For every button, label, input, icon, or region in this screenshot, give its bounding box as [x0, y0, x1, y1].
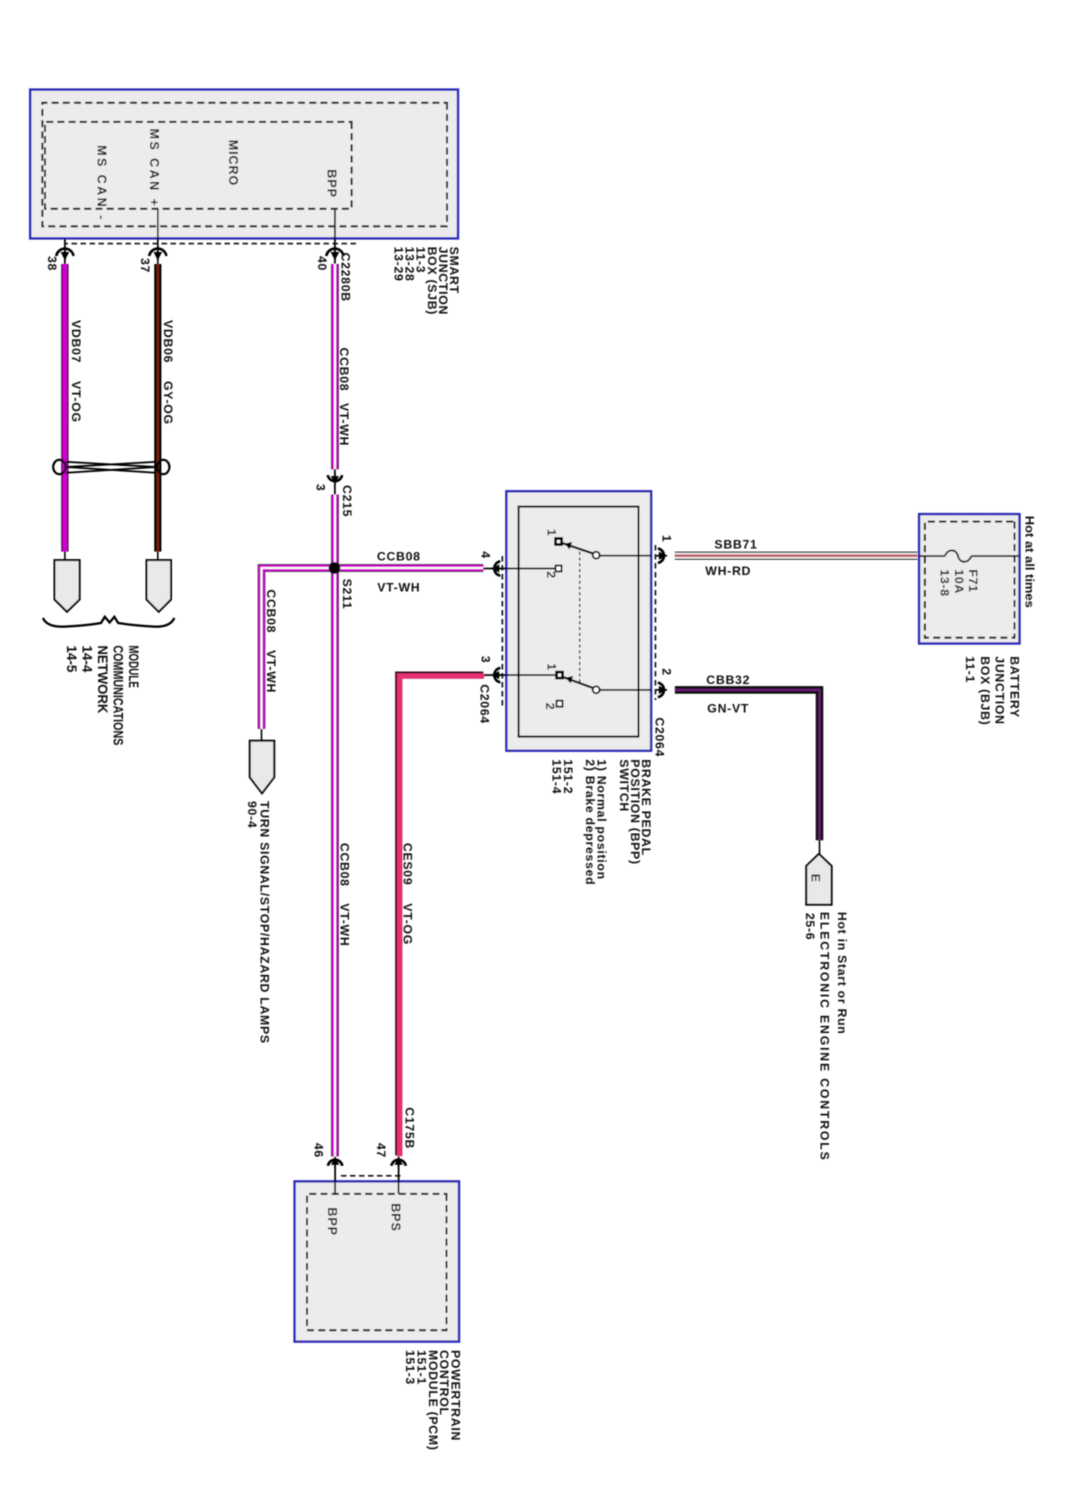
svg-text:COMMUNICATIONS: COMMUNICATIONS: [110, 645, 125, 745]
svg-text:ELECTRONIC ENGINE CONTROLS: ELECTRONIC ENGINE CONTROLS: [818, 912, 832, 1162]
svg-text:VT-WH: VT-WH: [264, 650, 278, 693]
connector arrow pin 38: [56, 246, 73, 260]
svg-text:JUNCTION: JUNCTION: [993, 656, 1007, 724]
connector arrow pin 47: [391, 1157, 405, 1168]
svg-text:CCB08: CCB08: [377, 549, 421, 563]
svg-text:VT-WH: VT-WH: [377, 580, 420, 594]
svg-text:CCB08: CCB08: [264, 589, 278, 633]
svg-text:1: 1: [660, 535, 674, 543]
svg-text:BPP: BPP: [325, 169, 339, 198]
svg-text:GY-OG: GY-OG: [161, 381, 175, 425]
svg-text:Hot in Start or Run: Hot in Start or Run: [835, 912, 849, 1035]
svg-text:90-4: 90-4: [245, 801, 259, 828]
SJB outer dashed boundary: [42, 103, 447, 227]
twisted pair circle (VDB07): [53, 460, 65, 474]
svg-text:SWITCH: SWITCH: [617, 759, 631, 812]
wire VDB07 VT-OG: [61, 264, 68, 552]
svg-text:BATTERY: BATTERY: [1007, 656, 1021, 718]
svg-text:MODULE: MODULE: [126, 645, 141, 688]
svg-text:151-3: 151-3: [403, 1350, 417, 1385]
connector arrow pin 3: [491, 668, 502, 682]
svg-text:47: 47: [374, 1143, 388, 1158]
switch 1 common circle: [593, 552, 600, 559]
svg-text:MS CAN -: MS CAN -: [95, 145, 109, 222]
connector pentagon E: [806, 854, 831, 905]
wire CCB08 VT-WH (S211 to PCM pin 46): [331, 568, 339, 1156]
svg-text:CBB32: CBB32: [706, 673, 750, 687]
svg-text:C215: C215: [340, 485, 354, 517]
svg-text:BPP: BPP: [325, 1207, 339, 1236]
svg-text:25-6: 25-6: [803, 913, 817, 940]
connector arrow pin 2: [656, 683, 667, 697]
svg-text:C175B: C175B: [403, 1107, 417, 1149]
lead to connector (VDB06): [157, 552, 159, 561]
svg-text:11-1: 11-1: [963, 656, 977, 683]
connector C175B dashed line: [341, 1175, 401, 1177]
splice S211: [329, 562, 341, 574]
svg-text:GN-VT: GN-VT: [707, 702, 749, 716]
connector arrow pin 4: [491, 561, 502, 575]
pin 3 lead: [483, 674, 556, 676]
svg-text:40: 40: [315, 256, 329, 271]
fuse F71: [945, 550, 972, 561]
svg-text:VT-OG: VT-OG: [400, 903, 414, 945]
svg-text:38: 38: [45, 256, 59, 271]
wire stub pin 37: [157, 209, 159, 264]
svg-text:MS CAN +: MS CAN +: [147, 129, 161, 209]
switch 1 contact 1 (square): [556, 539, 562, 545]
lead to E connector: [819, 840, 821, 854]
connector arrow pin 37: [149, 246, 166, 260]
wire VDB06 GY-OG: [154, 264, 161, 552]
twisted pair circle (VDB06): [157, 460, 169, 474]
svg-text:10A: 10A: [952, 569, 966, 594]
wire CCB08 VT-WH (C215 to S211): [331, 495, 339, 568]
svg-text:13-29: 13-29: [392, 247, 406, 282]
svg-text:Hot at all times: Hot at all times: [1023, 516, 1037, 608]
connector arrow pin 46: [328, 1157, 342, 1168]
battery junction box BJB: [919, 514, 1019, 643]
svg-text:13-8: 13-8: [938, 569, 952, 596]
wire CES09 VT-OG: [399, 675, 484, 1155]
pin 47 lead: [398, 1162, 400, 1194]
C2064 dashed (top): [654, 545, 656, 700]
BJB dashed boundary: [925, 522, 1015, 638]
svg-text:151-4: 151-4: [550, 759, 564, 794]
switch 2 contact 1 (square, to pin 3): [557, 672, 563, 678]
C2064 dashed (bottom): [501, 556, 503, 706]
SJB MICRO dashed box: [45, 122, 352, 209]
svg-text:2: 2: [660, 668, 674, 676]
svg-text:2: 2: [543, 703, 557, 711]
svg-text:4: 4: [479, 551, 493, 559]
switch 1 contact 2 (square, to pin 4): [556, 566, 562, 572]
connector pentagon (VDB06): [147, 560, 172, 612]
svg-text:NETWORK: NETWORK: [95, 645, 110, 713]
wire stub pin 40 (BPP): [334, 209, 336, 264]
pin 4 lead: [483, 568, 555, 570]
mechanical link dashed: [579, 552, 581, 683]
twisted pair crossover lines: [66, 462, 157, 467]
svg-text:2) Brake depressed: 2) Brake depressed: [583, 759, 597, 885]
brake pedal position switch box: [506, 491, 651, 750]
connector C215 symbol: [334, 469, 336, 494]
pin 1 lead: [600, 555, 652, 557]
brace (module communications network): [43, 617, 174, 627]
svg-text:WH-RD: WH-RD: [705, 564, 751, 578]
svg-text:BPS: BPS: [388, 1203, 402, 1232]
smart junction box SJB: [30, 90, 458, 239]
svg-text:VT-WH: VT-WH: [337, 403, 351, 446]
wire stub pin 38: [64, 239, 66, 265]
svg-text:C2064: C2064: [478, 684, 492, 724]
BPP inner box: [519, 507, 639, 737]
switch 1 blade: [561, 543, 595, 555]
PCM dashed boundary: [307, 1194, 447, 1330]
svg-text:3: 3: [314, 484, 328, 492]
switch 2 blade: [562, 677, 595, 689]
svg-text:C2064: C2064: [652, 717, 666, 757]
svg-text:F71: F71: [966, 569, 980, 592]
connector arrow pin 40: [326, 246, 343, 260]
svg-text:3: 3: [478, 656, 492, 664]
svg-text:37: 37: [138, 258, 152, 273]
connector pentagon (turn signal): [250, 741, 275, 794]
svg-text:VT-OG: VT-OG: [69, 381, 83, 423]
svg-text:1: 1: [544, 663, 558, 671]
svg-text:46: 46: [311, 1143, 325, 1158]
switch 2 contact 2 (square, open): [557, 701, 563, 707]
svg-text:MICRO: MICRO: [226, 140, 240, 186]
svg-text:TURN SIGNAL/STOP/HAZARD LAMPS: TURN SIGNAL/STOP/HAZARD LAMPS: [257, 801, 271, 1044]
pin 46 lead: [334, 1162, 336, 1194]
svg-text:VDB07: VDB07: [69, 320, 83, 363]
wire CCB08 VT-WH (pin 4 to S211): [335, 564, 484, 572]
wire CBB32 GN-VT: [675, 690, 820, 840]
svg-text:1: 1: [545, 529, 559, 537]
connector C2280B dashed line: [64, 243, 356, 245]
svg-text:C2280B: C2280B: [338, 253, 352, 302]
svg-text:VT-WH: VT-WH: [338, 903, 352, 946]
svg-text:E: E: [809, 874, 823, 883]
svg-text:14-5: 14-5: [64, 645, 79, 673]
svg-text:2: 2: [544, 571, 558, 579]
connector arrow pin 1: [656, 549, 667, 563]
svg-text:14-4: 14-4: [80, 645, 95, 673]
wire CCB08 VT-WH (SJB to C215): [331, 264, 339, 469]
svg-text:CCB08: CCB08: [338, 843, 352, 887]
wire SBB71 WH-RD: [675, 552, 918, 560]
svg-text:S211: S211: [340, 579, 354, 610]
svg-text:SBB71: SBB71: [714, 537, 757, 551]
lead to turn signal connector: [261, 729, 263, 741]
switch 2 common circle: [593, 686, 600, 693]
svg-text:CES09: CES09: [400, 843, 414, 885]
svg-text:CCB08: CCB08: [337, 348, 351, 392]
wire CCB08 VT-WH (S211 branch to turn signal lamps): [262, 568, 335, 729]
svg-text:BOX (BJB): BOX (BJB): [978, 656, 992, 725]
lead to connector (VDB07): [64, 552, 66, 561]
svg-text:VDB06: VDB06: [161, 320, 175, 363]
connector pentagon (VDB07): [55, 560, 80, 612]
fuse feed line: [919, 555, 945, 557]
powertrain control module box: [295, 1181, 459, 1341]
pin 2 lead: [600, 689, 652, 691]
